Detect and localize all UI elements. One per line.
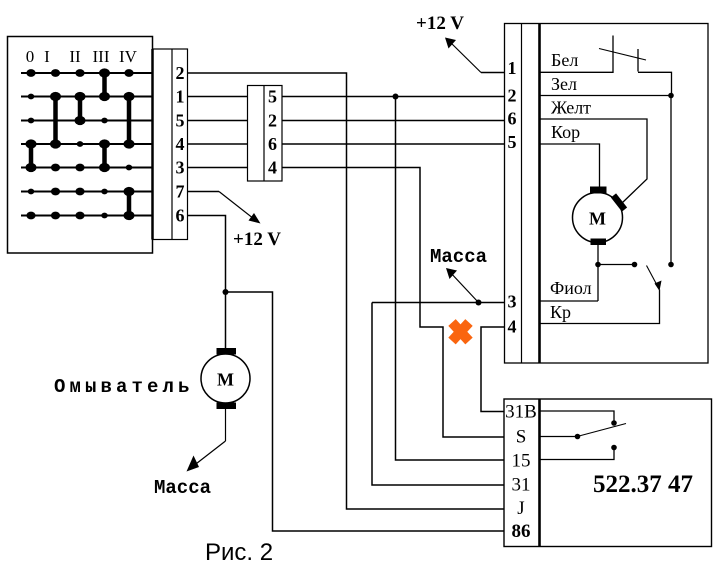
svg-text:Омыватель: Омыватель [54,376,194,398]
svg-text:Желт: Желт [551,98,591,118]
svg-text:86: 86 [512,521,531,542]
svg-text:0: 0 [26,47,35,66]
svg-text:2: 2 [268,111,277,131]
svg-text:I: I [44,47,50,66]
svg-text:II: II [69,47,81,66]
svg-text:S: S [516,427,527,448]
svg-text:IV: IV [119,47,138,66]
svg-text:4: 4 [508,317,517,337]
svg-text:III: III [93,47,110,66]
svg-text:7: 7 [176,182,185,202]
svg-text:Кор: Кор [551,122,580,142]
svg-text:1: 1 [508,58,517,78]
svg-text:15: 15 [512,451,531,472]
svg-text:М: М [589,209,606,229]
svg-text:Рис. 2: Рис. 2 [205,539,273,565]
svg-text:6: 6 [176,206,185,226]
svg-text:4: 4 [268,158,277,178]
svg-text:Фиол: Фиол [550,278,592,298]
svg-text:2: 2 [176,63,185,83]
svg-text:+12 V: +12 V [416,13,464,34]
svg-text:3: 3 [508,292,517,312]
svg-text:6: 6 [268,134,277,154]
svg-text:5: 5 [176,111,185,131]
svg-text:М: М [217,370,234,390]
svg-text:Кр: Кр [550,302,571,322]
svg-text:Бел: Бел [551,50,578,70]
svg-text:3: 3 [176,158,185,178]
svg-text:+12 V: +12 V [233,229,281,250]
svg-text:Зел: Зел [551,74,577,94]
svg-text:31В: 31В [505,402,537,423]
svg-text:5: 5 [508,132,517,152]
svg-text:J: J [517,498,524,519]
svg-text:Масса: Масса [430,246,487,268]
svg-text:522.37 47: 522.37 47 [593,471,693,498]
svg-text:Масса: Масса [154,477,211,499]
svg-text:2: 2 [508,86,517,106]
svg-text:4: 4 [176,134,185,154]
svg-text:1: 1 [176,87,185,107]
svg-text:31: 31 [512,475,531,496]
svg-text:6: 6 [508,109,517,129]
svg-text:5: 5 [268,87,277,107]
